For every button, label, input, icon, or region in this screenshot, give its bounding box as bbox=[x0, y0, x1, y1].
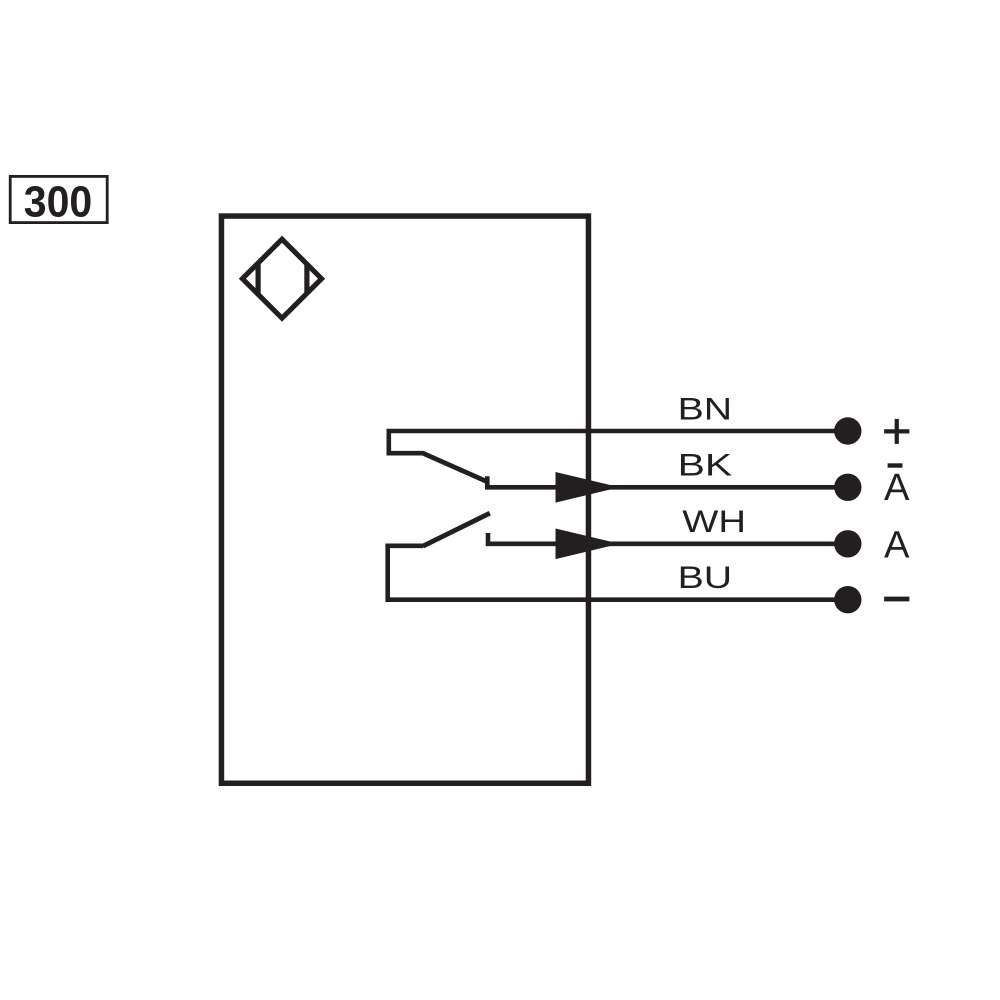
svg-text:300: 300 bbox=[24, 177, 93, 226]
svg-text:A: A bbox=[884, 466, 910, 509]
svg-text:A: A bbox=[884, 524, 910, 567]
svg-text:BN: BN bbox=[678, 390, 733, 426]
svg-text:BK: BK bbox=[678, 447, 733, 483]
svg-text:WH: WH bbox=[682, 503, 746, 539]
svg-text:BU: BU bbox=[678, 559, 733, 595]
